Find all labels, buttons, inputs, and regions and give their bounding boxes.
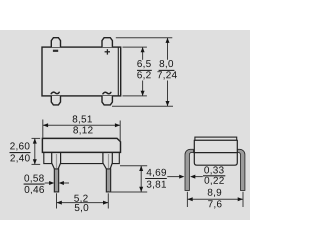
dim 5,2/5,0 (57, 193, 109, 208)
ext body bottom (123, 95, 147, 97)
right pin (106, 169, 110, 192)
skirt below body (44, 152, 120, 163)
arrows 6,5 dim (141, 38, 170, 107)
dim 2,60/2,40 (32, 138, 41, 164)
right lead (237, 149, 245, 190)
lid (195, 137, 237, 140)
ext body top (123, 46, 147, 48)
dim 0,58/0,46 (24, 175, 44, 195)
dim 8,9/7,6 (187, 192, 243, 207)
ext tab top (116, 37, 173, 39)
pin tab top-right (102, 38, 112, 47)
txt 6,5 @144.0,67.0 (137, 71, 150, 79)
left pin (54, 169, 58, 192)
txt 3,81 @146.3,187.6 (145, 178, 167, 180)
minus marking (53, 50, 58, 52)
pin tab top-left (51, 38, 60, 47)
package body outline plan (42, 47, 121, 96)
dim 4,69/3,81 (109, 166, 147, 192)
txt 0,58 @34.1,181.5 (25, 186, 44, 194)
txt 8,51 @82.3,122.4 (73, 126, 92, 134)
plus marking (105, 49, 110, 54)
body (194, 140, 237, 165)
pin tab bottom-left (51, 96, 60, 105)
dim 8,51/8,12 (43, 120, 120, 142)
dim line 6,5 (142, 47, 144, 60)
dim text 6,5 / 6,2 (137, 60, 150, 80)
arrows 8,0 dim (166, 38, 170, 43)
dim 0,33/0,22 (167, 176, 203, 178)
left leg shoulder (52, 153, 61, 170)
txt 8,0 @166.3,67.0 (157, 71, 176, 79)
txt 8,9 @214.5,195.7 (208, 200, 221, 208)
left lead (185, 149, 193, 190)
gray drawing band (0, 30, 250, 220)
txt 2,60 @19.8,149.4 (10, 154, 29, 162)
ext tab bottom (112, 105, 173, 107)
txt 0,33 @214.0,173.4 (204, 177, 223, 185)
dim text 8,0 / 7,24 (157, 60, 176, 80)
right leg shoulder (103, 153, 112, 170)
extension lines top view (112, 38, 173, 107)
pin tab bottom-right (102, 96, 112, 105)
txt 5,2 @81.0,201.6 (75, 204, 89, 212)
tilde marking left (51, 92, 59, 94)
parting line (193, 152, 237, 154)
txt 4,69 @146.3,175.7 (147, 181, 166, 189)
body with chamfered top right (42, 138, 120, 152)
chamfer edge line plan right (117, 47, 119, 96)
dim line 8,0 (167, 38, 169, 60)
tilde marking right (103, 92, 111, 94)
